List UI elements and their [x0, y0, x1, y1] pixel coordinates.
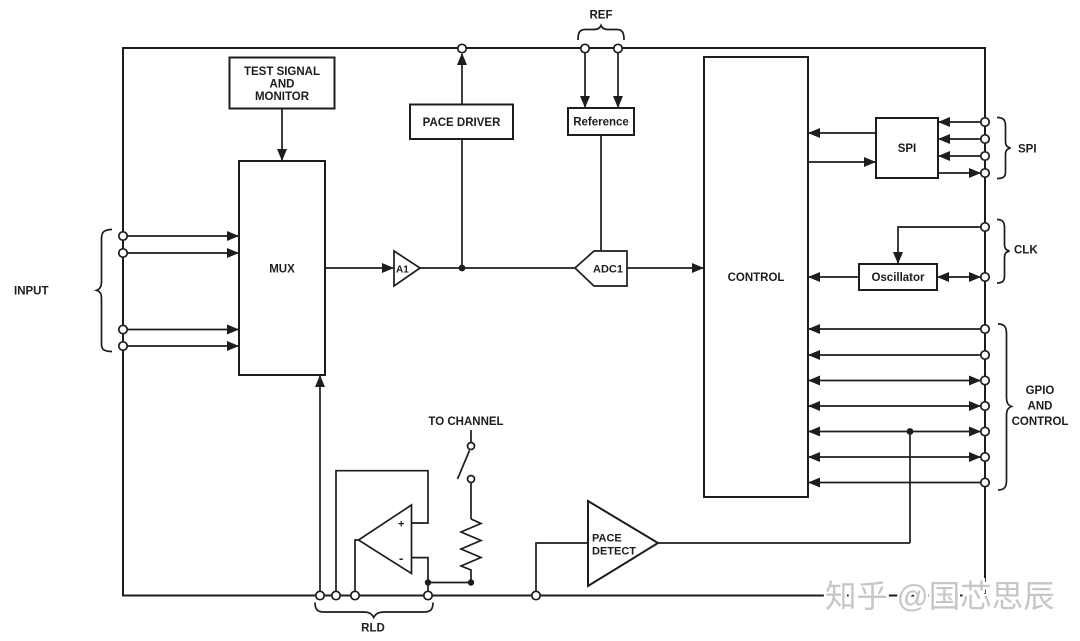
- svg-text:SPI: SPI: [1018, 144, 1037, 156]
- wire: GPIO row 3 (double arrow): [809, 380, 980, 382]
- wire: ADC1 to CONTROL (arrow right): [627, 267, 703, 269]
- brace: SPI: [997, 118, 1011, 179]
- wire: CONTROL to SPI (arrow right): [808, 161, 875, 163]
- wire: input 3 to MUX (arrow right): [128, 329, 239, 331]
- svg-text:DETECT: DETECT: [592, 546, 636, 558]
- wire: Oscillator to CONTROL (arrow left): [809, 276, 859, 278]
- terminal: GPIO pin 4: [981, 402, 989, 410]
- svg-text:CLK: CLK: [1014, 245, 1038, 257]
- wire: input 1 to MUX (arrow right): [128, 235, 239, 237]
- terminal: GPIO pin 1: [981, 325, 989, 333]
- svg-text:MUX: MUX: [269, 264, 295, 276]
- svg-text:TEST SIGNAL: TEST SIGNAL: [244, 66, 320, 78]
- terminal: GPIO pin 6: [981, 453, 989, 461]
- wire: GPIO row 1 (arrow into CONTROL): [809, 328, 981, 330]
- terminal: REF pin 1: [581, 44, 589, 52]
- junction: GPIO row5 node: [907, 428, 914, 435]
- wire: MUX to A1 (arrow right): [325, 267, 393, 269]
- wire: SPI to CONTROL (arrow left): [809, 132, 876, 134]
- terminal: RLD pin 1: [316, 591, 324, 599]
- terminal: CLK pin 2: [981, 273, 989, 281]
- brace: INPUT: [97, 230, 113, 352]
- terminal: GPIO pin 5: [981, 427, 989, 435]
- svg-text:SPI: SPI: [898, 143, 917, 155]
- terminal: GPIO pin 7: [981, 478, 989, 486]
- svg-text:-: -: [399, 551, 403, 566]
- svg-text:AND: AND: [270, 79, 295, 91]
- wire: GPIO row 7 (arrow into CONTROL): [809, 482, 981, 484]
- op-amp RLD: [359, 505, 412, 574]
- terminal: GPIO pin 2: [981, 351, 989, 359]
- watermark: zhihu: [825, 578, 1055, 614]
- brace: GPIO: [998, 324, 1012, 490]
- svg-text:GPIO: GPIO: [1026, 385, 1055, 397]
- svg-text:CONTROL: CONTROL: [1012, 416, 1069, 428]
- wire: pace detect input: [536, 543, 588, 592]
- wire: input 2 to MUX (arrow right): [128, 252, 239, 254]
- wire: REF pin1 to Reference box (arrow down): [584, 53, 586, 107]
- wire: GPIO row 4 (double arrow): [809, 405, 980, 407]
- svg-text:RLD: RLD: [361, 623, 385, 635]
- resistor RLD zigzag: [461, 519, 481, 583]
- svg-text:A1: A1: [396, 265, 409, 276]
- wire: pace driver up to terminal (arrow up): [461, 54, 463, 105]
- terminal: SPI pin 2: [981, 135, 989, 143]
- wire: test signal to MUX (arrow down): [281, 109, 283, 161]
- terminal: RLD pin 2: [332, 591, 340, 599]
- wire: node to resistor bottom: [428, 582, 471, 584]
- svg-text:AND: AND: [1028, 401, 1053, 413]
- junction: signal/pace driver node: [459, 265, 466, 272]
- svg-text:PACE DRIVER: PACE DRIVER: [423, 117, 501, 129]
- wire: GPIO row5 to pace detect vertical: [909, 432, 911, 544]
- wire: A1 to ADC1: [420, 267, 575, 269]
- svg-text:Reference: Reference: [573, 117, 629, 129]
- svg-text:CONTROL: CONTROL: [728, 272, 785, 284]
- wire: Oscillator to CLK pin2 (double arrow): [938, 276, 980, 278]
- switch: top contact: [468, 443, 475, 450]
- terminal: SPI pin 4: [981, 169, 989, 177]
- brace: RLD: [315, 603, 433, 618]
- wire: SPI pin row 3 (arrow into SPI): [939, 155, 981, 157]
- svg-text:+: +: [398, 519, 404, 531]
- wire: RLD pin1 up to MUX bottom (arrow up): [319, 376, 321, 592]
- ADC1 pentagon: [575, 251, 627, 286]
- box: Reference: [568, 108, 634, 135]
- wire: op-amp - input to node: [412, 558, 428, 583]
- bottom rail wire: [123, 595, 985, 597]
- wire: switch to resistor: [470, 483, 472, 520]
- wire: node down to RLD pin 4: [427, 583, 429, 592]
- wire: REF pin2 to Reference box (arrow down): [617, 53, 619, 107]
- wire: GPIO row 5 (double arrow): [809, 431, 980, 433]
- wire: op-amp output down: [355, 540, 359, 592]
- switch: bottom contact: [468, 476, 475, 483]
- svg-text:知乎 @国芯思辰: 知乎 @国芯思辰: [825, 578, 1055, 614]
- terminal: input pin 1: [119, 232, 127, 240]
- amp: PACE DETECT: [588, 501, 658, 586]
- box: PACE DRIVER: [410, 105, 513, 140]
- wire: GPIO row 2 (arrow into CONTROL): [809, 354, 981, 356]
- terminal: pace detect input pin: [532, 591, 540, 599]
- terminal: REF pin 2: [614, 44, 622, 52]
- box: TEST SIGNAL AND MONITOR: [230, 58, 335, 109]
- terminal: SPI pin 3: [981, 152, 989, 160]
- label: GPIO AND CONTROL: [1012, 385, 1069, 428]
- terminal: RLD pin 4: [424, 591, 432, 599]
- svg-text:ADC1: ADC1: [593, 264, 623, 276]
- junction: inverting input node: [425, 579, 431, 585]
- box: MUX: [239, 161, 325, 375]
- box: Oscillator: [859, 264, 937, 290]
- brace: REF: [578, 26, 624, 41]
- terminal: GPIO pin 3: [981, 376, 989, 384]
- wire: SPI pin row 1 (arrow into SPI): [939, 121, 981, 123]
- wire: GPIO row 6 (double arrow): [809, 456, 980, 458]
- wire: pace detect output: [658, 542, 910, 544]
- junction: resistor bottom node: [468, 579, 474, 585]
- svg-text:INPUT: INPUT: [14, 286, 49, 298]
- box: CONTROL: [704, 57, 808, 497]
- svg-text:REF: REF: [590, 10, 613, 22]
- terminal: pace driver top pin: [458, 44, 466, 52]
- brace: CLK: [997, 220, 1010, 284]
- outer chip border: [123, 48, 985, 596]
- wire: op-amp + feedback loop: [336, 471, 428, 592]
- svg-text:TO CHANNEL: TO CHANNEL: [428, 416, 503, 428]
- terminal: input pin 2: [119, 249, 127, 257]
- wire: SPI pin row 2 (arrow into SPI): [939, 138, 981, 140]
- switch: blade: [458, 451, 470, 480]
- wire: SPI pin row 4 (arrow out to pin): [938, 172, 980, 174]
- terminal: CLK pin 1: [981, 223, 989, 231]
- svg-text:PACE: PACE: [592, 533, 622, 545]
- svg-text:MONITOR: MONITOR: [255, 91, 310, 103]
- wire: Reference down to ADC1: [600, 135, 602, 251]
- wire: pace driver down to signal line: [461, 139, 463, 268]
- terminal: RLD pin 3: [351, 591, 359, 599]
- box: SPI: [876, 118, 938, 178]
- terminal: SPI pin 1: [981, 118, 989, 126]
- wire: CLK pin1 left: [898, 227, 981, 263]
- wire: input 4 to MUX (arrow right): [128, 345, 239, 347]
- op-amp A1: [394, 251, 420, 286]
- wire: switch top stub: [470, 430, 472, 442]
- svg-text:Oscillator: Oscillator: [871, 272, 925, 284]
- terminal: input pin 4: [119, 342, 127, 350]
- terminal: input pin 3: [119, 325, 127, 333]
